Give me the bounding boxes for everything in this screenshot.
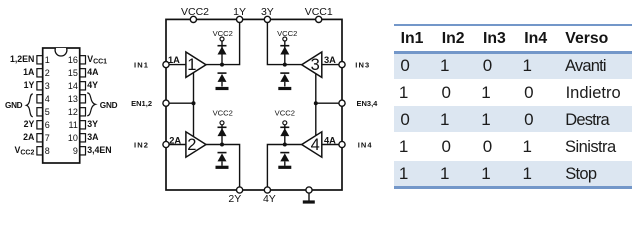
svg-text:4Y: 4Y	[87, 80, 98, 90]
port label EN1,2	[131, 99, 152, 108]
terminal IN1	[163, 62, 169, 68]
svg-text:VCC2: VCC2	[15, 145, 35, 157]
buffer U2 triangle	[186, 132, 206, 157]
svg-text:16: 16	[68, 55, 78, 65]
svg-text:1A: 1A	[23, 67, 35, 77]
junction EN3,4	[314, 101, 318, 105]
pin number 5	[45, 107, 50, 117]
pin 16 box	[80, 56, 86, 64]
truth table header row	[401, 29, 424, 49]
wire buffer4 output to 4Y	[267, 145, 301, 191]
svg-text:VCC2: VCC2	[181, 6, 209, 18]
pin number 6	[45, 120, 50, 130]
terminal EN1,2	[163, 100, 169, 106]
wire enable vertical right	[315, 73, 317, 136]
pin 11 box	[80, 121, 86, 129]
pin name 2A	[169, 135, 181, 145]
truth table banded row Avanti	[394, 54, 632, 79]
svg-text:7: 7	[45, 133, 50, 143]
pin 4 box	[37, 95, 43, 103]
svg-text:IN3: IN3	[355, 60, 370, 69]
net label VCC1 top	[305, 6, 333, 18]
pin 10 box	[80, 134, 86, 142]
pin 5 box	[37, 108, 43, 116]
svg-text:EN3,4: EN3,4	[357, 99, 379, 108]
pin label 2A	[23, 132, 35, 142]
svg-text:IN1: IN1	[134, 60, 149, 69]
pin label GND right	[100, 101, 118, 110]
truth table row Sinistra	[399, 137, 408, 157]
svg-text:2: 2	[45, 68, 50, 78]
pin number 8	[45, 146, 50, 156]
pin 13 box	[80, 95, 86, 103]
pin 3 box	[37, 82, 43, 90]
pin number 16	[68, 55, 78, 65]
truth table header underline	[394, 51, 632, 53]
svg-text:3A: 3A	[324, 55, 336, 65]
svg-text:3Y: 3Y	[87, 119, 98, 129]
svg-text:VCC1: VCC1	[305, 6, 333, 18]
svg-text:VCC2: VCC2	[277, 29, 297, 38]
pin 1 box	[37, 56, 43, 64]
pin name 4A	[324, 135, 336, 145]
terminal EN3,4	[339, 100, 345, 106]
pin number 12	[68, 107, 78, 117]
port label IN1	[134, 60, 149, 69]
svg-text:10: 10	[68, 133, 78, 143]
svg-text:14: 14	[68, 81, 78, 91]
pin label 4Y	[87, 80, 98, 90]
pin number 1	[45, 55, 50, 65]
junction node 3Y	[283, 63, 287, 67]
pin label VCC1	[87, 54, 107, 66]
port label IN2	[134, 140, 149, 149]
truth table row Avanti	[400, 56, 409, 76]
pin number 11	[69, 120, 78, 130]
pin 12 box	[80, 108, 86, 116]
terminal VCC2 top	[190, 16, 196, 22]
wire EN1,2	[166, 102, 194, 104]
svg-text:4A: 4A	[324, 135, 336, 145]
svg-text:9: 9	[73, 146, 78, 156]
svg-text:4A: 4A	[87, 67, 99, 77]
svg-text:IN2: IN2	[134, 140, 149, 149]
svg-text:3: 3	[311, 56, 320, 74]
svg-text:4: 4	[45, 94, 50, 104]
pin label 4A	[87, 67, 99, 77]
diode pair D1 VCC2 clamp top-left	[216, 37, 229, 89]
svg-text:3Y: 3Y	[261, 6, 274, 18]
truth table banded row Stop	[394, 161, 632, 186]
svg-text:15: 15	[68, 68, 78, 78]
buffer U4 triangle	[302, 132, 322, 157]
terminal 4Y bottom	[264, 187, 270, 193]
port label IN4	[358, 140, 373, 149]
pin label VCC2	[15, 145, 35, 157]
VCC2 label top-right clamp	[277, 29, 297, 38]
diode pair D2 VCC2 clamp bottom-left	[216, 121, 229, 168]
pin label 1Y	[24, 80, 35, 90]
VCC2 label bottom-right clamp	[275, 109, 295, 118]
pin 7 box	[37, 134, 43, 142]
terminal 1Y top	[237, 16, 243, 22]
svg-text:5: 5	[45, 107, 50, 117]
svg-text:2: 2	[187, 136, 196, 154]
pin 14 box	[80, 82, 86, 90]
wire buffer1 output to 1Y	[206, 19, 240, 64]
VCC2 label bottom-left clamp	[213, 109, 233, 118]
truth table row Indietro	[399, 83, 408, 103]
svg-text:11: 11	[69, 120, 78, 130]
pin 9 box	[80, 147, 86, 155]
pin label 3A	[87, 132, 99, 142]
junction node 1Y	[220, 63, 224, 67]
svg-text:6: 6	[45, 120, 50, 130]
pin number 7	[45, 133, 50, 143]
brace GND pins 13-12	[87, 93, 95, 116]
svg-text:1: 1	[187, 56, 196, 74]
pin label 1,2EN	[10, 54, 34, 64]
svg-text:VCC1: VCC1	[87, 54, 107, 66]
svg-text:4Y: 4Y	[263, 193, 276, 205]
IC U1 DIP-16 body	[43, 48, 80, 163]
svg-text:1Y: 1Y	[24, 80, 35, 90]
schematic box	[166, 19, 342, 190]
buffer U1 triangle	[186, 52, 206, 77]
wire IN1 to buffer 1	[166, 64, 186, 66]
svg-text:IN4: IN4	[358, 140, 373, 149]
pin number 13	[68, 94, 78, 104]
wire buffer3 output to 3Y	[267, 19, 301, 64]
svg-text:VCC2: VCC2	[213, 29, 233, 38]
truth table top border	[394, 24, 632, 26]
pin 8 box	[37, 147, 43, 155]
junction node 2Y	[220, 143, 224, 147]
pin label 1A	[23, 67, 35, 77]
terminal IN4	[339, 141, 345, 147]
net label VCC2 top	[181, 6, 209, 18]
pin label 3Y	[87, 119, 98, 129]
terminal 3Y top	[264, 16, 270, 22]
VCC2 label top-left clamp	[213, 29, 233, 38]
wire IN2 to buffer 2	[166, 144, 186, 146]
ground symbol	[303, 193, 315, 202]
terminal IN2	[163, 141, 169, 147]
pin 6 box	[37, 121, 43, 129]
wire IN4 to buffer 4	[322, 144, 342, 146]
pin number 4	[45, 94, 50, 104]
pin number 3	[45, 81, 50, 91]
net label 3Y top	[261, 6, 274, 18]
svg-text:EN1,2: EN1,2	[131, 99, 152, 108]
pin number 10	[68, 133, 78, 143]
svg-text:2Y: 2Y	[228, 193, 241, 205]
diode pair D3 VCC2 clamp top-right	[278, 37, 291, 89]
truth table bottom border	[394, 186, 632, 189]
svg-text:13: 13	[68, 94, 78, 104]
svg-text:3,4EN: 3,4EN	[87, 145, 111, 155]
pin number 14	[68, 81, 78, 91]
pin label GND left	[5, 101, 23, 110]
pin number 2	[45, 68, 50, 78]
pin label 2Y	[24, 119, 35, 129]
svg-text:VCC2: VCC2	[213, 109, 233, 118]
svg-text:4: 4	[311, 136, 320, 154]
svg-text:1Y: 1Y	[233, 6, 246, 18]
svg-text:2Y: 2Y	[24, 119, 35, 129]
wire enable vertical left	[193, 72, 195, 137]
brace GND pins 4-5	[26, 94, 32, 117]
net label 1Y top	[233, 6, 246, 18]
junction EN1,2	[192, 101, 196, 105]
terminal VCC1 top	[316, 16, 322, 22]
wire EN3,4	[316, 102, 342, 104]
buffer U3 triangle	[302, 52, 322, 77]
net label 2Y bottom	[228, 193, 241, 205]
svg-text:8: 8	[45, 146, 50, 156]
svg-text:GND: GND	[5, 101, 23, 110]
pin 15 box	[80, 69, 86, 77]
pin name 3A	[324, 55, 336, 65]
svg-text:1A: 1A	[168, 55, 180, 65]
svg-text:2A: 2A	[23, 132, 35, 142]
pin label 3,4EN	[87, 145, 111, 155]
svg-text:1: 1	[45, 55, 50, 65]
truth table row Stop	[399, 164, 408, 184]
pin 2 box	[37, 69, 43, 77]
svg-text:2A: 2A	[169, 135, 181, 145]
svg-text:GND: GND	[100, 101, 118, 110]
port label EN3,4	[357, 99, 379, 108]
truth table banded row Destra	[394, 106, 632, 132]
wire IN3 to buffer 3	[322, 64, 342, 66]
net label 4Y bottom	[263, 193, 276, 205]
wire buffer2 output to 2Y	[206, 145, 240, 191]
terminal IN3	[339, 62, 345, 68]
junction node 4Y	[283, 143, 287, 147]
diode pair D4 VCC2 clamp bottom-right	[278, 121, 291, 168]
truth table row Destra	[400, 110, 409, 130]
pin number 9	[73, 146, 78, 156]
pin number 15	[68, 68, 78, 78]
svg-text:VCC2: VCC2	[275, 109, 295, 118]
pin name 1A	[168, 55, 180, 65]
terminal 2Y bottom	[237, 187, 243, 193]
port label IN3	[355, 60, 370, 69]
svg-text:3A: 3A	[87, 132, 99, 142]
svg-text:12: 12	[68, 107, 78, 117]
terminal GND bottom	[306, 187, 312, 193]
svg-text:1,2EN: 1,2EN	[10, 54, 34, 64]
svg-text:3: 3	[45, 81, 50, 91]
